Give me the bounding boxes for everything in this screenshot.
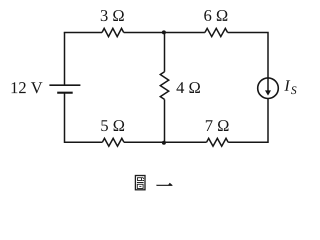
battery V1 long plate	[49, 84, 80, 86]
wire right-bottom segment	[228, 99, 268, 143]
node B bottom junction dot	[162, 141, 166, 145]
label 3 ohm	[101, 10, 124, 21]
current source arrow head	[265, 90, 271, 95]
wire middle branch upper	[164, 33, 166, 72]
node A top junction dot	[162, 30, 166, 34]
resistor R3 5ohm zigzag	[102, 138, 124, 146]
wire top-left segment	[65, 32, 103, 35]
wire top-right segment	[228, 33, 268, 78]
wire middle branch lower	[164, 99, 166, 142]
label 4 ohm	[176, 82, 199, 93]
wire bottom-left segment	[65, 93, 103, 143]
wire bottom-middle segment	[124, 141, 207, 143]
resistor RM 4ohm vertical zigzag	[160, 72, 168, 100]
wire battery top lead	[64, 33, 66, 86]
label 6 ohm	[204, 10, 227, 21]
resistor R4 7ohm zigzag	[207, 138, 229, 146]
label 12 V	[12, 82, 43, 93]
label 7 ohm	[206, 120, 229, 131]
label IS current source name	[284, 80, 296, 94]
battery V1 short plate	[57, 92, 72, 94]
label 5 ohm	[101, 120, 124, 131]
wire top-middle segment	[124, 32, 205, 34]
resistor R2 6ohm zigzag	[205, 28, 228, 36]
resistor R1 3ohm zigzag	[102, 28, 124, 36]
caption figure-one glyph YI	[157, 183, 173, 185]
caption figure-one glyph TU	[135, 176, 145, 190]
current source IS circle	[258, 78, 279, 99]
current source IS arrow shaft	[267, 78, 269, 91]
